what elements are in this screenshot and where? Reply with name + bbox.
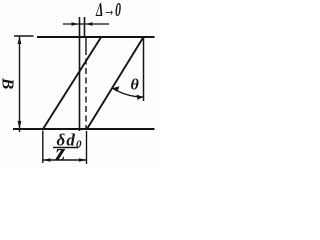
angle arc theta [112, 88, 143, 97]
arrowhead delta right (points left at strip) [85, 22, 93, 26]
left extension line of bottom dimension [42, 131, 44, 164]
svg-text:0: 0 [76, 139, 82, 151]
elementary strip line V2 [84, 17, 86, 38]
arrowhead delta left (points right at strip) [72, 22, 80, 26]
fraction bar [53, 147, 79, 149]
arrowhead bottom dim right [79, 158, 87, 162]
top extension tick for B [14, 35, 34, 37]
arrowhead arc at vertical end [137, 95, 144, 100]
dashed vertical axis line (first long dash) [85, 38, 87, 55]
svg-text:z: z [55, 140, 66, 167]
elementary strip line V1 [79, 17, 81, 131]
arrowhead bottom dim left [43, 158, 51, 162]
helix line L1 [43, 37, 102, 130]
top edge of development (horizontal) [37, 36, 155, 38]
arrowhead B bottom [18, 121, 22, 129]
svg-text:θ: θ [131, 77, 140, 94]
delta dimension leader line [63, 23, 109, 25]
dashed vertical axis line [85, 55, 87, 129]
arrowhead B top [18, 36, 22, 44]
svg-text:Δ→0: Δ→0 [95, 0, 121, 21]
bottom dimension line [43, 159, 87, 161]
dimension line B (vertical) [19, 36, 21, 132]
vertical reference line at L2 top [143, 37, 145, 101]
svg-text:B: B [0, 77, 18, 89]
right extension line of bottom dimension [86, 131, 88, 164]
bottom edge of development (horizontal) [13, 128, 155, 130]
helix line L2 [87, 37, 144, 129]
arrowhead arc at L2 end [112, 86, 119, 92]
